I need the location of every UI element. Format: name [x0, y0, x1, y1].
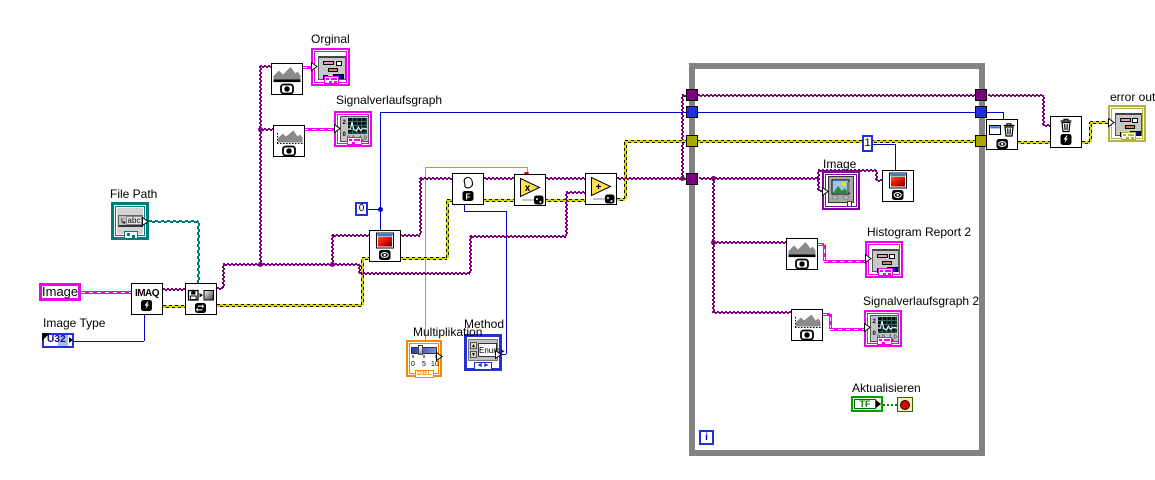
svg-text:+: +	[596, 182, 602, 193]
svg-text:x: x	[525, 183, 531, 194]
svg-text:0: 0	[343, 132, 347, 138]
svg-text:0: 0	[411, 361, 415, 367]
svg-text:2: 2	[873, 319, 877, 325]
svg-text:5: 5	[422, 361, 426, 367]
svg-text:F: F	[466, 193, 471, 202]
svg-text:0: 0	[873, 331, 877, 337]
svg-text:2: 2	[343, 120, 347, 126]
svg-text:IMAQ: IMAQ	[135, 288, 160, 299]
